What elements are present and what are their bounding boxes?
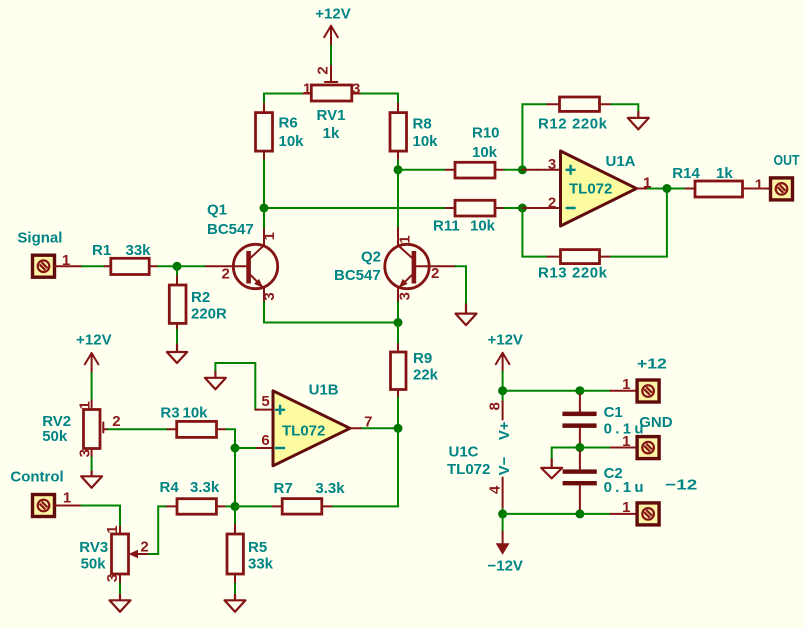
wire +12V to RV1 pin2 [330,46,332,66]
node M junction GND rail [575,443,584,452]
ground for R12 [628,111,649,129]
svg-text:R12 220k: R12 220k [538,116,608,133]
wire Q2 emitter [397,302,399,322]
svg-text:OUT: OUT [774,152,800,169]
svg-text:R11: R11 [433,218,460,235]
svg-text:1: 1 [622,376,630,393]
svg-text:1: 1 [397,235,414,243]
svg-text:−12: −12 [665,477,697,494]
resistor R7 [273,480,345,514]
wire node I to R7 [235,505,273,507]
wire R6 to Q1 collector junction [263,160,265,208]
svg-text:+12V: +12V [315,6,350,23]
svg-text:C1: C1 [604,404,623,421]
svg-text:2: 2 [548,195,556,212]
wire Q1 collector [263,208,265,228]
svg-text:0.1u: 0.1u [604,479,644,496]
connector OUT [771,152,800,200]
op-amp U1C power pin V- (4) [486,456,513,514]
wire Q1 collector row to R11 [264,207,446,209]
svg-text:1k: 1k [323,125,340,142]
svg-text:33k: 33k [126,242,152,259]
svg-text:TL072: TL072 [282,423,325,440]
wire RV1 pin1 to R6 [264,94,302,104]
capacitor C1 [562,395,643,448]
svg-text:BC547: BC547 [207,221,254,238]
node O junction C2 bottom [575,509,584,518]
wire R4 to node I [226,505,235,507]
svg-text:V+: V+ [496,421,513,440]
op-amp U1A [522,151,667,226]
node G junction emitters/R9 [394,318,403,327]
svg-text:2: 2 [431,265,439,282]
svg-text:50k: 50k [81,556,107,573]
wire +12V flag to node K [502,372,504,391]
svg-text:3: 3 [104,574,121,582]
svg-text:1: 1 [261,232,278,240]
connector Signal [17,230,82,278]
resistor R8 [390,103,438,160]
svg-text:RV3: RV3 [79,539,108,556]
svg-text:R5: R5 [248,539,267,556]
connector Control [10,469,81,517]
power flag +12V for RV2 [76,331,111,373]
svg-text:+12: +12 [637,356,667,373]
svg-text:1: 1 [622,433,630,450]
svg-text:R2: R2 [191,289,210,306]
wire R3 to node H [226,429,235,448]
svg-text:10k: 10k [413,133,439,150]
svg-text:Q2: Q2 [361,248,381,265]
svg-text:2: 2 [315,66,332,74]
resistor R14 [667,165,771,197]
wire node M to ground symbol [552,448,580,459]
ground for RV3 [110,584,131,612]
wire RV3 wiper up to R4 [149,506,167,554]
resistor R12 [522,97,638,170]
potentiometer RV3 [79,525,149,583]
resistor R2 [169,266,227,329]
ground for U1B pin5 [205,370,226,389]
wire Control to RV3 pin1 [81,506,120,527]
wire node D to R13 [522,208,547,257]
op-amp U1C power pin V+ (8) [486,391,513,440]
svg-text:3: 3 [352,80,360,97]
svg-text:+12V: +12V [487,331,522,348]
node B junction R10/R12/U1A-pin3 [518,165,527,174]
svg-text:R8: R8 [413,115,432,132]
svg-text:1: 1 [755,176,763,193]
svg-text:220R: 220R [191,306,227,323]
resistor R1 [92,242,158,275]
svg-text:3: 3 [77,449,94,457]
power flag +12V top [315,6,350,46]
op-amp U1B [235,382,394,466]
svg-text:U1A: U1A [606,153,636,170]
resistor R3 [160,405,226,438]
node L junction C1 top [575,386,584,395]
connector -12 [611,477,698,525]
wire Q2 base to ground [456,266,467,303]
wire +12V flag to RV2 [91,373,93,400]
svg-text:22k: 22k [413,367,439,384]
wire node A down to Q2 collector [397,170,399,228]
svg-text:TL072: TL072 [447,461,490,478]
svg-text:10k: 10k [472,144,498,161]
wire node H down to node I [234,448,236,506]
ground for R5 [225,584,246,612]
power flag +12V power rail [487,331,522,371]
transistor Q2 (mirrored) [334,228,456,302]
svg-text:U1C: U1C [449,444,479,461]
node N junction V- rail [498,509,507,518]
svg-text:GND: GND [639,414,673,431]
svg-text:R6: R6 [279,115,298,132]
node F junction R1/R2/Q1-base [173,262,182,271]
wire node N to node O [503,513,580,515]
svg-text:3: 3 [548,156,556,173]
wire Q1 emitter down and right [264,302,398,322]
svg-text:R1: R1 [92,242,111,259]
svg-text:10k: 10k [279,133,305,150]
svg-text:V−: V− [496,456,513,475]
ground for R2 [167,330,187,363]
svg-text:33k: 33k [248,556,274,573]
resistor R6 [256,103,305,160]
wire node L to +12 connector [580,390,611,392]
svg-text:+12V: +12V [76,331,111,348]
resistor R11 [433,200,522,234]
wire node F to Q1 base [177,265,206,267]
svg-text:3: 3 [397,292,414,300]
node E junction U1A output [662,184,671,193]
svg-text:BC547: BC547 [334,267,381,284]
svg-text:1k: 1k [716,165,733,182]
wire RV1 pin3 to R8 [362,94,399,104]
svg-text:1: 1 [303,80,311,97]
svg-text:R14: R14 [672,165,700,182]
wire ground to U1B pin5 [215,363,255,410]
svg-text:10k: 10k [470,218,496,235]
wire R8 to node A junction [397,160,399,170]
connector GND [611,414,673,459]
ground for power rail [541,458,562,478]
potentiometer RV1 [302,66,362,142]
svg-text:1: 1 [77,401,94,409]
resistor R9 [391,323,439,425]
svg-text:Q1: Q1 [207,201,227,218]
wire RV2 wiper to R3 [108,428,168,430]
node I junction R4/R7/R5/U1B-pin6 [231,502,240,511]
svg-text:RV1: RV1 [317,107,346,124]
svg-text:−12V: −12V [487,557,522,574]
wire Signal to R1 [82,265,105,267]
svg-text:1: 1 [622,499,630,516]
resistor R5 [227,506,274,583]
svg-text:6: 6 [261,432,269,449]
transistor Q1 [206,201,278,302]
svg-text:3: 3 [261,292,278,300]
node D junction R11/R13/U1A-pin2 [518,204,527,213]
node K junction V+ rail [498,386,507,395]
svg-text:1: 1 [62,252,70,269]
svg-text:R10: R10 [472,125,500,142]
node A junction R8/R10/Q2-collector [394,165,403,174]
svg-text:2: 2 [222,265,230,282]
resistor R10 [398,125,522,178]
svg-text:1: 1 [63,490,71,507]
svg-text:50k: 50k [42,428,68,445]
node J junction U1B output/R9/feedback [394,424,403,433]
svg-text:2: 2 [112,413,120,430]
svg-text:1: 1 [104,525,121,533]
svg-text:3.3k: 3.3k [190,479,220,496]
node H junction R3/U1B-pin6 [231,444,240,453]
connector +12 [611,356,667,403]
svg-text:4: 4 [486,485,503,494]
wire node K to node L [503,390,580,392]
svg-text:R4: R4 [160,479,180,496]
svg-text:10k: 10k [183,405,209,422]
svg-text:R13 220k: R13 220k [538,265,608,282]
ground for RV2 [81,458,102,488]
wire node J down to R7 [332,428,399,506]
svg-text:U1B: U1B [309,382,339,399]
node C junction Q1 collector [260,204,269,213]
resistor R4 [160,479,227,514]
wire node O to -12 connector [580,513,611,515]
power flag -12V [487,514,522,574]
svg-text:Control: Control [10,469,63,486]
op-amp U1C label [447,444,490,479]
svg-text:3.3k: 3.3k [315,480,345,497]
svg-text:Signal: Signal [17,230,62,247]
potentiometer RV2 [42,400,120,457]
svg-text:R7: R7 [274,480,293,497]
wire R1 to node F [158,265,177,267]
ground for Q2 base [456,304,477,326]
capacitor C2 [563,452,644,514]
wire node M to GND connector [580,447,611,449]
svg-text:5: 5 [261,393,269,410]
svg-text:8: 8 [486,402,503,410]
svg-text:TL072: TL072 [569,181,612,198]
resistor R13 [538,189,667,282]
svg-text:2: 2 [140,539,148,556]
svg-text:R9: R9 [413,350,432,367]
svg-text:R3: R3 [160,405,179,422]
